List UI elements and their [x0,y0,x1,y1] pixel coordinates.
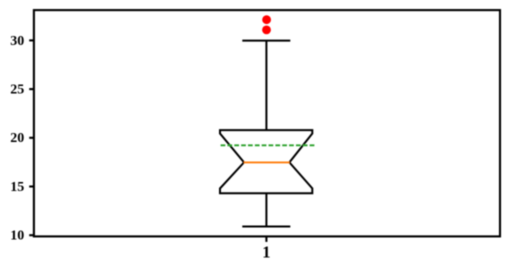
svg-text:1: 1 [262,243,270,262]
svg-text:25: 25 [10,83,24,98]
median line [244,161,289,163]
lower whisker [265,193,267,226]
flier 2 [262,26,271,35]
svg-text:30: 30 [10,34,24,49]
y tick 25 [29,88,34,90]
mean dashed line [221,144,315,146]
upper cap [242,40,290,42]
svg-text:20: 20 [10,131,24,146]
y tick 20 [29,137,34,139]
svg-text:10: 10 [10,229,24,244]
svg-text:15: 15 [10,180,24,195]
lower cap [242,226,290,228]
upper whisker [265,41,267,131]
y tick 10 [29,234,34,236]
y tick 15 [29,185,34,187]
notched box [220,130,312,193]
flier 1 [262,15,271,24]
x tick 1 [265,236,267,242]
y tick 30 [29,39,34,41]
axes frame [34,10,500,236]
